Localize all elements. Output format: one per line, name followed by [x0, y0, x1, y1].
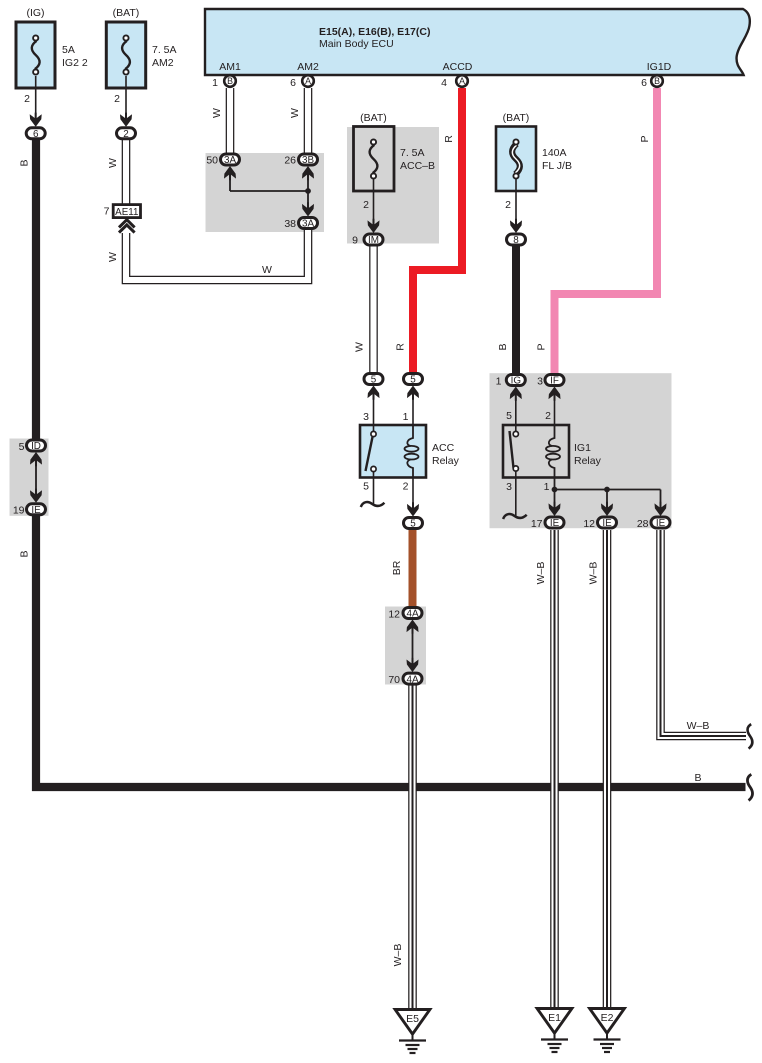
- wire W-B double-line (17 IE to ground E1): [550, 530, 559, 1009]
- svg-text:B: B: [227, 76, 233, 86]
- wire fuse IG2 to connector 6: [35, 76, 37, 118]
- junction block grey box (4A/4A): [385, 607, 426, 685]
- svg-text:(BAT): (BAT): [113, 7, 140, 19]
- svg-text:(IG): (IG): [26, 7, 44, 19]
- svg-text:2: 2: [363, 199, 369, 211]
- svg-text:6: 6: [641, 77, 647, 89]
- svg-text:W: W: [107, 158, 119, 168]
- svg-text:BR: BR: [391, 560, 403, 575]
- connector oval 8: [507, 234, 526, 246]
- svg-text:ACC: ACC: [432, 442, 455, 454]
- svg-text:W: W: [354, 342, 366, 352]
- svg-text:B: B: [694, 772, 701, 784]
- connector AE11: [113, 205, 140, 218]
- svg-text:5: 5: [410, 375, 416, 386]
- svg-text:ID: ID: [31, 441, 41, 452]
- svg-text:5: 5: [371, 375, 377, 386]
- wire fuse AM2 to connector 2: [125, 76, 127, 118]
- connector oval IE (17): [531, 517, 564, 530]
- fusible link 140A FL J/B: [496, 127, 536, 192]
- wire ACC relay pin2 to oval 5: [412, 478, 414, 509]
- svg-text:Relay: Relay: [574, 455, 602, 467]
- svg-text:1: 1: [496, 376, 502, 388]
- svg-text:3B: 3B: [302, 155, 314, 166]
- svg-text:W–B: W–B: [392, 944, 404, 967]
- svg-text:3: 3: [506, 481, 512, 493]
- svg-text:AM2: AM2: [152, 57, 174, 69]
- wire P pink (IG1D to IF): [555, 88, 658, 373]
- switch blade: [366, 437, 373, 471]
- svg-text:2: 2: [123, 129, 129, 140]
- svg-text:3A: 3A: [224, 155, 236, 166]
- switch contact top: [371, 431, 376, 436]
- ECU pin ACCD: [441, 61, 473, 89]
- svg-text:3: 3: [537, 376, 543, 388]
- svg-text:2: 2: [114, 93, 120, 105]
- relay coil: [546, 425, 560, 478]
- svg-text:E5: E5: [406, 1013, 419, 1025]
- svg-text:Main Body ECU: Main Body ECU: [319, 38, 394, 50]
- connector oval IM (9): [352, 234, 383, 247]
- wire ACC-B fuse to IM: [373, 179, 375, 225]
- svg-text:4A: 4A: [406, 609, 418, 620]
- connector oval IG (1): [496, 375, 526, 388]
- ground E1: [537, 1009, 572, 1053]
- svg-text:6: 6: [33, 129, 39, 140]
- IG1 relay: [503, 425, 569, 478]
- wire W-B double-line (4A 70 to ground E5): [408, 684, 417, 1010]
- junction block J/B grey box (3A/3B): [206, 153, 325, 232]
- wire B black (fuse 8 to IG): [512, 245, 520, 373]
- svg-text:AE11: AE11: [115, 207, 138, 218]
- break symbol W-B wire right end: [748, 724, 753, 748]
- junction block J/B grey box (ACC-B fuse, IM): [347, 127, 439, 244]
- wire ACC relay pin3 to oval 5: [373, 397, 375, 432]
- svg-text:Relay: Relay: [432, 455, 460, 467]
- break symbol B wire right end: [747, 774, 752, 800]
- svg-text:P: P: [639, 135, 651, 142]
- wire ACC relay pin5 open end: [373, 472, 375, 505]
- svg-text:28: 28: [637, 518, 649, 530]
- connector oval 6: [26, 128, 45, 140]
- connector oval IE (12): [583, 517, 616, 530]
- connector oval 5 (ACC relay pin1 side): [404, 374, 423, 386]
- svg-text:W: W: [211, 108, 223, 118]
- svg-text:B: B: [497, 343, 509, 350]
- svg-text:R: R: [395, 343, 407, 351]
- svg-text:P: P: [536, 343, 548, 350]
- wire B thick vertical+horizontal with elbow: [32, 139, 40, 439]
- connector oval 5 (below ACC relay): [404, 518, 423, 530]
- jumper wire ID to IE: [30, 452, 42, 503]
- wire IG1 relay pin1 to IE connectors: [549, 478, 667, 517]
- svg-text:W: W: [262, 264, 272, 276]
- svg-text:2: 2: [403, 481, 409, 493]
- wire FL to connector 8: [515, 179, 517, 225]
- svg-text:W: W: [107, 252, 119, 262]
- wire W-B double-line (28 IE down and right to break): [661, 530, 747, 736]
- svg-text:7. 5A: 7. 5A: [400, 147, 425, 159]
- ECU pin AM1: [212, 61, 241, 89]
- wire W double-line (IM to oval 5): [369, 246, 378, 373]
- svg-text:5: 5: [506, 410, 512, 422]
- wire W double-line (AM2 to 3B): [304, 87, 313, 153]
- wire BR brown (oval 5 to 4A): [409, 528, 417, 607]
- wire W double-line (AM1 to 3A): [226, 87, 235, 153]
- svg-text:W–B: W–B: [535, 562, 547, 585]
- svg-text:IG: IG: [511, 376, 521, 387]
- wire W double-line (AE11 down, right, up to 3A 38): [126, 230, 308, 280]
- svg-text:B: B: [19, 550, 31, 557]
- ECU pin IG1D: [641, 61, 672, 89]
- connector oval 3A (50): [206, 154, 239, 167]
- svg-text:IE: IE: [550, 518, 560, 529]
- svg-text:AM2: AM2: [297, 61, 319, 73]
- svg-text:4: 4: [441, 77, 447, 89]
- connector oval 2: [117, 128, 136, 140]
- connector oval 5 (ACC relay pin3 side): [364, 374, 383, 386]
- svg-text:IG1: IG1: [574, 442, 591, 454]
- jumper wire 4A to 4A: [407, 620, 419, 673]
- ground E2: [590, 1009, 625, 1053]
- svg-text:3A: 3A: [302, 219, 314, 230]
- svg-text:2: 2: [24, 93, 30, 105]
- svg-text:IF: IF: [550, 376, 559, 387]
- svg-text:7: 7: [104, 206, 110, 218]
- connector oval 3A (38): [284, 218, 317, 231]
- svg-text:IE: IE: [602, 518, 612, 529]
- svg-text:W–B: W–B: [588, 562, 600, 585]
- connector oval ID (5): [19, 440, 46, 453]
- svg-text:1: 1: [544, 481, 550, 493]
- junction block grey box (ID/IE): [10, 439, 49, 516]
- svg-text:B: B: [19, 159, 31, 166]
- svg-text:W: W: [289, 108, 301, 118]
- wire IG1 relay pin2 to IF: [554, 398, 556, 425]
- svg-text:IE: IE: [31, 505, 41, 516]
- svg-text:26: 26: [284, 155, 296, 167]
- svg-text:IM: IM: [368, 235, 379, 246]
- svg-text:5A: 5A: [62, 44, 75, 56]
- wire ACC relay pin1 to oval 5: [412, 397, 414, 425]
- wire R red (ACCD to ACC relay): [413, 88, 462, 373]
- svg-text:FL J/B: FL J/B: [542, 160, 572, 172]
- svg-text:(BAT): (BAT): [360, 112, 387, 124]
- svg-text:(BAT): (BAT): [503, 112, 530, 124]
- svg-text:R: R: [443, 135, 455, 143]
- svg-text:2: 2: [505, 199, 511, 211]
- svg-text:38: 38: [284, 218, 296, 230]
- switch contact bottom: [371, 466, 376, 471]
- svg-text:A: A: [305, 76, 311, 86]
- svg-text:6: 6: [290, 77, 296, 89]
- connector oval 3B (26): [284, 154, 317, 167]
- connector oval IE (28): [637, 517, 670, 530]
- svg-text:1: 1: [212, 77, 218, 89]
- svg-text:12: 12: [583, 518, 595, 530]
- switch blade: [510, 431, 514, 468]
- svg-text:17: 17: [531, 518, 543, 530]
- ground E5: [395, 1010, 430, 1054]
- svg-text:ACC–B: ACC–B: [400, 160, 435, 172]
- junction block grey box (IG1 relay): [490, 373, 672, 528]
- fuse 7.5A ACC-B: [354, 127, 395, 192]
- wire IG1 relay pin3 open end: [515, 471, 517, 516]
- svg-text:4A: 4A: [406, 674, 418, 685]
- wire W double-line (oval 2 to AE11): [122, 139, 131, 206]
- svg-text:E2: E2: [601, 1012, 614, 1024]
- svg-text:1: 1: [403, 411, 409, 423]
- connector oval 4A (12): [388, 608, 422, 621]
- svg-text:5: 5: [363, 481, 369, 493]
- svg-text:5: 5: [410, 519, 416, 530]
- wire IG1 relay pin5 to IG: [515, 398, 517, 432]
- fuse 5A IG2 No.2: [16, 22, 55, 88]
- svg-text:9: 9: [352, 235, 358, 247]
- fuse 7.5A AM2: [106, 22, 145, 88]
- ACC relay: [360, 425, 426, 478]
- chevron in-line connector under AE11: [119, 220, 135, 233]
- switch contact top: [513, 431, 518, 436]
- connector oval IF (3): [537, 375, 564, 388]
- svg-text:8: 8: [513, 235, 519, 246]
- svg-text:2: 2: [545, 410, 551, 422]
- jumper wire 3A(50) to 3B/3A junction: [224, 166, 314, 217]
- junction node (12 IE column): [604, 487, 610, 493]
- connector oval 4A (70): [388, 673, 422, 686]
- svg-text:19: 19: [13, 505, 25, 517]
- svg-text:3: 3: [363, 411, 369, 423]
- svg-text:E15(A), E16(B), E17(C): E15(A), E16(B), E17(C): [319, 26, 430, 38]
- svg-text:W–B: W–B: [687, 720, 710, 732]
- junction node (pin 1 of IG1 relay): [552, 487, 558, 493]
- junction node (3B column): [305, 188, 311, 194]
- svg-text:E1: E1: [548, 1012, 561, 1024]
- connector oval IE (19): [13, 504, 46, 517]
- svg-text:ACCD: ACCD: [443, 61, 473, 73]
- svg-text:5: 5: [19, 441, 25, 453]
- relay coil: [405, 425, 419, 478]
- svg-text:AM1: AM1: [219, 61, 241, 73]
- svg-text:12: 12: [388, 609, 400, 621]
- svg-text:IG2 2: IG2 2: [62, 57, 88, 69]
- wire W-B double-line (12 IE to ground E2): [603, 530, 612, 1009]
- Main Body ECU box: [205, 9, 750, 75]
- svg-text:140A: 140A: [542, 147, 567, 159]
- svg-text:50: 50: [206, 155, 218, 167]
- svg-text:IG1D: IG1D: [647, 61, 672, 73]
- switch contact bottom: [513, 466, 518, 471]
- svg-text:IE: IE: [656, 518, 666, 529]
- svg-text:B: B: [654, 76, 660, 86]
- svg-text:A: A: [459, 76, 465, 86]
- ECU pin AM2: [290, 61, 319, 89]
- svg-text:7. 5A: 7. 5A: [152, 44, 177, 56]
- svg-text:70: 70: [388, 674, 400, 686]
